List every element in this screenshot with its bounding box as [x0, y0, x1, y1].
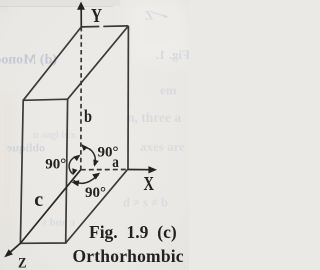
Z axis: [10, 170, 81, 253]
svg-text:b: b: [84, 106, 92, 126]
paper background: [0, 0, 189, 270]
svg-text:Z: Z: [18, 256, 27, 270]
svg-text:Orthorhombic: Orthorhombic: [73, 246, 184, 266]
hidden top-back edge (dashed): [81, 26, 128, 27]
90-degree arc marker between c and a: [74, 175, 99, 184]
top-right slant edge: [68, 26, 129, 99]
top scan band: [0, 0, 120, 6]
90-degree arc marker between b and c: [69, 156, 80, 174]
hidden back-left vertical edge b (dashed): [80, 27, 83, 170]
svg-text:X: X: [144, 173, 155, 195]
svg-text:90°: 90°: [85, 185, 106, 201]
hidden back-bottom edge a (dashed): [81, 169, 128, 171]
bottom-right slant edge: [66, 169, 128, 243]
soft tonal washes: [128, 0, 189, 62]
svg-text:90°: 90°: [98, 144, 119, 160]
X axis: [128, 169, 150, 171]
svg-text:Y: Y: [91, 5, 102, 27]
back-right vertical edge: [127, 26, 129, 169]
Y axis: [80, 10, 82, 27]
top-left slant edge: [23, 27, 81, 100]
svg-text:(d) Monoclinic: (d) Monoclinic: [0, 53, 57, 68]
svg-text:90°: 90°: [45, 157, 66, 173]
svg-text:oblique: oblique: [6, 141, 45, 155]
svg-text:Z: Z: [145, 8, 154, 23]
svg-text:d ≠ s ≠ b: d ≠ s ≠ b: [123, 196, 168, 210]
svg-text:Fig. 1.9 (c): Fig. 1.9 (c): [89, 222, 177, 242]
90-degree arc marker between b and a: [84, 147, 95, 165]
svg-text:em: em: [160, 83, 177, 98]
svg-text:axes are: axes are: [140, 139, 185, 154]
front face of unit cell: [20, 99, 67, 243]
svg-text:c: c: [34, 189, 43, 211]
svg-text:u aagl lsix: u aagl lsix: [33, 130, 76, 141]
svg-text:Fig. 1.: Fig. 1.: [156, 47, 189, 62]
bleedthrough mirrored axis line top right: [153, 13, 168, 18]
svg-text:n, three a: n, three a: [127, 110, 181, 125]
svg-text:c and s: c and s: [42, 217, 75, 229]
